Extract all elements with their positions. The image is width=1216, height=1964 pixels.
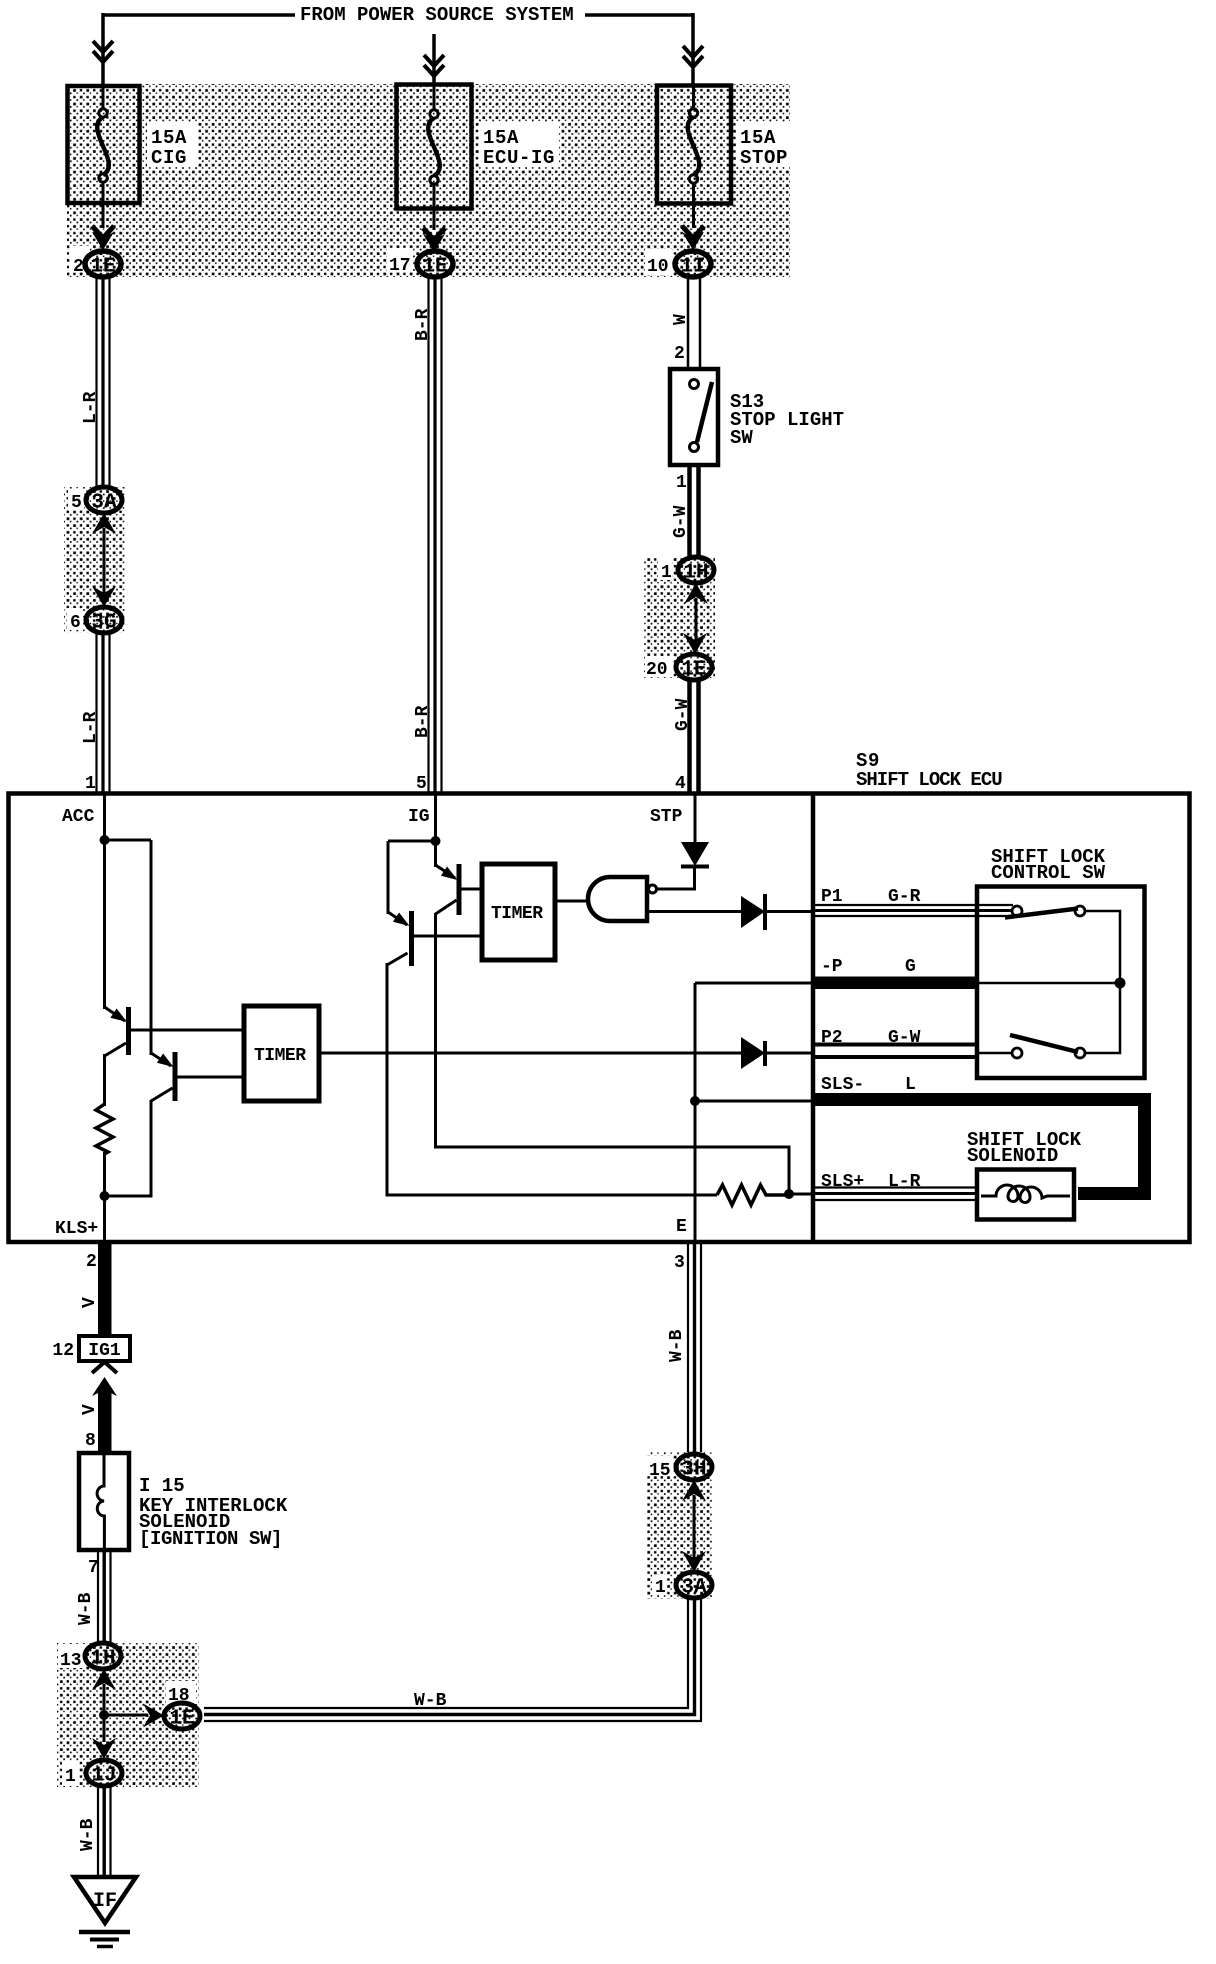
wire ACC to Q2 emitter branch [105, 840, 152, 1055]
svg-text:L: L [905, 1075, 916, 1095]
svg-text:3G: 3G [91, 612, 116, 635]
arrow feed middle [424, 55, 444, 76]
transistor Q1 [126, 1007, 131, 1055]
svg-text:W-B: W-B [667, 1329, 687, 1362]
svg-text:13: 13 [60, 1651, 82, 1671]
solenoid I15 coil [97, 1455, 104, 1548]
svg-text:2: 2 [73, 257, 84, 277]
connector 5(3A) [86, 487, 122, 513]
diode D1 [741, 896, 765, 928]
node control sw [1115, 978, 1126, 989]
svg-text:2: 2 [86, 1252, 97, 1272]
diode D2 [741, 1037, 765, 1069]
resistor R2 [717, 1185, 789, 1205]
node W-B junction [99, 1710, 109, 1720]
fuse 15A CIG box [68, 86, 140, 203]
wire IG vertical [434, 793, 437, 867]
node KLS+ [100, 1191, 110, 1201]
switch S13 STOP LIGHT SW [670, 369, 718, 465]
transistor Q4 [409, 911, 414, 966]
svg-text:SLS+: SLS+ [821, 1172, 864, 1192]
svg-text:G-W: G-W [673, 698, 693, 731]
control sw upper contact wires [1085, 911, 1120, 1053]
connector arrows 3A-3G [103, 528, 106, 594]
svg-text:KLS+: KLS+ [55, 1219, 98, 1239]
wire header right [585, 13, 693, 85]
shift lock ECU box [9, 794, 1190, 1243]
wire W-B triple 1J to ground [98, 1786, 111, 1877]
svg-text:15A: 15A [740, 127, 776, 149]
svg-text:CIG: CIG [151, 147, 187, 169]
svg-text:[IGNITION SW]: [IGNITION SW] [139, 1528, 282, 1550]
svg-text:SOLENOID: SOLENOID [967, 1145, 1058, 1167]
svg-text:SHIFT LOCK ECU: SHIFT LOCK ECU [856, 769, 1002, 791]
white patches under labels [147, 122, 197, 167]
arrow into IG1 [92, 1362, 117, 1373]
svg-text:B-R: B-R [413, 705, 433, 738]
connector 2(1E) [85, 251, 121, 277]
transistor Q3 [457, 864, 462, 915]
wire Q3 collector down and across [436, 913, 790, 1192]
connector 13(1H) [85, 1643, 121, 1669]
svg-text:15: 15 [649, 1461, 671, 1481]
svg-text:1: 1 [661, 563, 672, 583]
arrow feed right [683, 46, 703, 67]
wire G-W thick double S13 to 1H [690, 465, 699, 557]
fuse 15A CIG symbol [102, 88, 105, 228]
stipple block bottom-left connectors [57, 1643, 199, 1787]
svg-text:12: 12 [52, 1341, 74, 1361]
wire P2 double G-W [815, 1045, 977, 1058]
svg-text:I 15: I 15 [139, 1475, 185, 1497]
fuse 15A STOP symbol [692, 87, 695, 228]
svg-text:15A: 15A [483, 127, 519, 149]
wire SLS- thick L [815, 1100, 1145, 1194]
wire SLS- internal [695, 1100, 811, 1103]
wire G-W thick double 1E to ECU [690, 680, 699, 793]
nand gate U1 [588, 877, 647, 921]
svg-text:1I: 1I [680, 256, 705, 279]
wire resistor to KLS+ [103, 1152, 106, 1242]
wire STP vertical [694, 793, 697, 845]
wire W double 1I to S13 [688, 277, 700, 369]
connector 17(1E) [417, 251, 453, 277]
svg-text:W-B: W-B [78, 1818, 98, 1851]
key interlock solenoid I15 box [79, 1453, 129, 1550]
svg-text:STOP: STOP [740, 147, 788, 169]
wire gate output [647, 910, 741, 913]
control sw upper lever [1005, 909, 1078, 918]
svg-text:5: 5 [71, 493, 82, 513]
svg-text:8: 8 [85, 1431, 96, 1451]
connector 1(3A) [676, 1572, 712, 1598]
wire L-R triple 3G to ECU [97, 633, 110, 793]
arrow into 2-1E [92, 226, 114, 238]
svg-text:TIMER: TIMER [491, 904, 543, 924]
svg-text:1E: 1E [681, 659, 706, 682]
connector 15(3H) [676, 1454, 712, 1480]
wire KLS+ thick V [98, 1242, 112, 1337]
wire -P internal [695, 982, 811, 985]
wire -P thick G [815, 977, 977, 990]
stipple band behind fuses [67, 84, 790, 277]
wire T2 output [555, 900, 590, 903]
wire W-B triple E to 3H [688, 1242, 701, 1452]
svg-text:17: 17 [389, 256, 411, 276]
svg-text:18: 18 [168, 1686, 190, 1706]
arrow into 17-1E [423, 228, 445, 240]
connector 1(1H) [678, 557, 714, 583]
connector 1(1J) [86, 1760, 122, 1786]
wire feed middle [432, 34, 436, 84]
timer T1 [244, 1006, 319, 1101]
node IG [431, 836, 441, 846]
svg-text:5: 5 [416, 774, 427, 794]
ECU divider [811, 794, 816, 1243]
svg-text:1: 1 [65, 1767, 76, 1787]
fuse 15A ECU-IG box [397, 85, 472, 209]
svg-text:6: 6 [70, 613, 81, 633]
svg-text:20: 20 [646, 660, 668, 680]
wire V thick to I15 [98, 1390, 112, 1453]
svg-text:1E: 1E [422, 256, 447, 279]
svg-text:V: V [80, 1297, 100, 1308]
shift lock control switch box [977, 887, 1145, 1079]
wire ACC vertical [103, 793, 106, 1009]
arrow feed left [93, 41, 113, 62]
svg-text:B-R: B-R [413, 308, 433, 341]
transistor Q2 [173, 1052, 178, 1101]
svg-text:3: 3 [674, 1253, 685, 1273]
wire W-B triple 3A down and across to 1E [204, 1598, 701, 1721]
svg-text:W-B: W-B [414, 1691, 447, 1711]
connector arrows 1H-1E [695, 598, 698, 642]
svg-text:1E: 1E [169, 1708, 194, 1731]
svg-text:1: 1 [676, 473, 687, 493]
svg-text:FROM POWER SOURCE SYSTEM: FROM POWER SOURCE SYSTEM [300, 4, 574, 26]
svg-text:ACC: ACC [62, 807, 95, 827]
control sw lower contacts [1012, 1048, 1022, 1058]
svg-text:E: E [676, 1217, 687, 1237]
node SLS+ [784, 1189, 794, 1199]
wire STP/E vertical [694, 983, 697, 1242]
svg-text:15A: 15A [151, 127, 187, 149]
solenoid L1 coil [981, 1185, 1070, 1203]
svg-text:10: 10 [647, 257, 669, 277]
svg-text:4: 4 [675, 774, 686, 794]
wire P2 inside switch box [977, 1052, 1012, 1055]
wire SLS+ triple L-R [815, 1188, 977, 1201]
stipple block connectors 1H-1E [644, 557, 715, 678]
arrow into 10-1I [682, 226, 704, 238]
fuse 15A ECU-IG symbol [433, 86, 436, 230]
wire header left [103, 13, 295, 85]
svg-text:-P: -P [821, 957, 843, 977]
resistor R1 [96, 1104, 113, 1154]
wire IG to Q4 emitter branch [388, 841, 436, 914]
svg-text:1: 1 [85, 774, 96, 794]
wire B-R triple 1E to ECU [429, 277, 442, 793]
svg-text:SLS-: SLS- [821, 1075, 864, 1095]
svg-text:IG: IG [408, 807, 430, 827]
connector 10(1I) [675, 251, 711, 277]
arrow down into 1J [92, 1738, 116, 1759]
wire P1 triple G-R [815, 905, 1013, 916]
svg-text:1J: 1J [91, 1765, 116, 1788]
wire gate bubble to STP diode [657, 868, 695, 889]
svg-text:1H: 1H [90, 1648, 115, 1671]
svg-text:3H: 3H [681, 1459, 706, 1482]
wire T1 output to P2 [319, 1052, 741, 1055]
shift lock solenoid box [977, 1170, 1074, 1220]
svg-text:1E: 1E [90, 256, 115, 279]
wire Q2 collector down [105, 1100, 151, 1196]
wire Q1 collector down [103, 1054, 106, 1106]
svg-text:IF: IF [93, 1890, 117, 1913]
svg-text:ECU-IG: ECU-IG [483, 147, 555, 169]
connector 12(IG1) [79, 1336, 130, 1361]
svg-text:L-R: L-R [888, 1172, 921, 1192]
wire -P inside switch box [977, 982, 1120, 985]
wire W-B triple I15 to 1H [98, 1550, 111, 1643]
node ACC [100, 835, 110, 845]
svg-text:L-R: L-R [81, 391, 101, 424]
fuse 15A STOP box [657, 86, 731, 204]
svg-text:STP: STP [650, 807, 683, 827]
svg-text:3A: 3A [681, 1577, 707, 1600]
wire Q4 collector down to resistor line [387, 963, 717, 1195]
wire SLS+ internal [789, 1193, 811, 1196]
svg-text:TIMER: TIMER [254, 1046, 306, 1066]
diode D3 STP [681, 842, 709, 866]
svg-text:IG1: IG1 [88, 1341, 121, 1361]
svg-text:L-R: L-R [81, 711, 101, 744]
stipple block connectors 3H-3A [647, 1452, 712, 1599]
connector 20(1E) [676, 654, 712, 680]
connector 6(3G) [86, 607, 122, 633]
svg-text:1: 1 [655, 1578, 666, 1598]
arrow right into 1E [104, 1714, 148, 1717]
control sw upper contacts [1012, 906, 1022, 916]
svg-text:G-W: G-W [671, 505, 691, 538]
svg-text:1H: 1H [683, 562, 708, 585]
svg-text:3A: 3A [91, 492, 117, 515]
svg-text:W-B: W-B [76, 1592, 96, 1625]
arrow up into 1H [92, 1669, 116, 1690]
svg-text:CONTROL SW: CONTROL SW [991, 862, 1106, 884]
svg-text:V: V [80, 1404, 100, 1415]
svg-text:W: W [671, 314, 691, 325]
ground IF [74, 1877, 136, 1923]
connector 18(1E) [164, 1703, 200, 1729]
control sw lower lever [1010, 1035, 1078, 1052]
node SLS- [690, 1096, 700, 1106]
stipple block connectors 3A-3G [64, 487, 125, 633]
timer T2 [482, 864, 555, 960]
svg-text:G: G [905, 957, 916, 977]
svg-text:2: 2 [674, 344, 685, 364]
connector arrows 3H-3A [693, 1495, 696, 1560]
svg-text:SW: SW [730, 427, 753, 449]
wire L-R triple 1E to 3A [97, 278, 110, 487]
